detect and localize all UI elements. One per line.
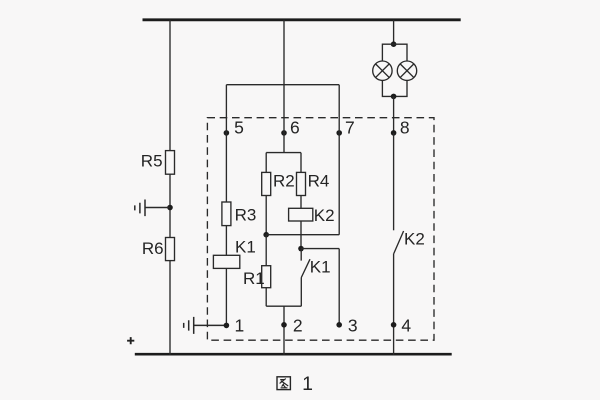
wire node 6 column from top bus	[283, 20, 285, 153]
wire parallel top R2 R4	[266, 152, 301, 154]
wire R5 to R6	[169, 174, 171, 237]
wire node 7 column	[338, 85, 340, 235]
svg-text:7: 7	[345, 117, 355, 137]
junction dot bottom of lamps	[391, 94, 397, 100]
wire lamp parallel top	[382, 44, 407, 61]
svg-text:1: 1	[302, 373, 313, 395]
wire junction to R1	[265, 235, 267, 266]
wire bottom rail of contact group	[266, 305, 301, 307]
bottom supply bus	[135, 353, 452, 356]
wire node 3 column	[338, 249, 340, 325]
svg-text:6: 6	[290, 117, 300, 137]
node 5	[224, 130, 230, 136]
wire bridge above box	[226, 84, 339, 86]
top supply bus	[143, 18, 461, 21]
svg-text:R3: R3	[235, 205, 257, 224]
relay coil K2	[289, 208, 313, 221]
wire coil K2 to junction	[300, 221, 302, 249]
svg-text:8: 8	[400, 117, 410, 137]
ground symbol G1	[135, 200, 170, 217]
svg-text:3: 3	[348, 316, 358, 336]
wire node 2 column	[283, 306, 285, 355]
relay coil K1	[213, 255, 239, 268]
junction dot below coil K2	[298, 246, 304, 252]
svg-text:K2: K2	[314, 206, 335, 225]
svg-text:4: 4	[401, 316, 411, 336]
svg-text:K1: K1	[235, 237, 256, 256]
resistor R3	[222, 202, 231, 226]
junction dot top of lamps	[391, 41, 397, 47]
wire top bus to R5	[169, 20, 171, 151]
wire coil K1 to node 1	[225, 268, 227, 325]
svg-text:2: 2	[293, 316, 303, 336]
svg-text:R1: R1	[243, 269, 265, 288]
svg-text:R5: R5	[141, 152, 163, 171]
wire node 8 to switch K2	[393, 133, 395, 230]
resistor R6	[166, 238, 175, 261]
switch K2	[394, 231, 404, 355]
svg-text:K1: K1	[310, 258, 331, 277]
junction dot below R2	[263, 232, 269, 238]
svg-text:K2: K2	[404, 230, 425, 249]
wire R1 to bottom rail	[265, 288, 267, 307]
node 6	[281, 130, 287, 136]
wire junction to node 3 column	[301, 248, 339, 250]
switch K1	[301, 249, 310, 307]
node 1	[224, 323, 230, 329]
svg-text:1: 1	[235, 316, 245, 336]
plus terminal label	[127, 337, 134, 344]
resistor R4	[297, 172, 306, 195]
svg-text:R4: R4	[308, 172, 330, 191]
wire lamps to node 8	[393, 96, 395, 132]
node 2	[281, 322, 287, 328]
wire node 5 column	[225, 85, 227, 202]
wire into R2	[265, 153, 267, 173]
ground symbol G2	[184, 317, 227, 334]
lamp HL2	[397, 61, 416, 80]
node 7	[336, 130, 342, 136]
wire junction to node 7 column	[266, 234, 339, 236]
wire lamp parallel bottom	[382, 80, 407, 96]
resistor R1	[262, 266, 271, 288]
wire into R4	[300, 153, 302, 173]
lamp HL1	[373, 61, 392, 80]
wire top bus to lamp junction	[393, 20, 395, 44]
wire R6 to bottom bus	[169, 261, 171, 355]
node 4	[391, 322, 397, 328]
svg-text:5: 5	[234, 117, 244, 137]
dashed module boundary	[207, 118, 434, 341]
wire R4 to coil K2	[300, 196, 302, 209]
wire R2 to junction	[265, 196, 267, 235]
svg-text:R2: R2	[273, 172, 295, 191]
svg-text:R6: R6	[142, 239, 164, 258]
wire R3 to coil K1	[225, 226, 227, 256]
junction dot at ground tap	[167, 205, 173, 211]
node 8	[391, 130, 397, 136]
resistor R2	[262, 172, 271, 195]
node 3	[336, 322, 342, 328]
resistor R5	[166, 151, 175, 175]
caption figure 1 glyph tu	[277, 377, 290, 390]
